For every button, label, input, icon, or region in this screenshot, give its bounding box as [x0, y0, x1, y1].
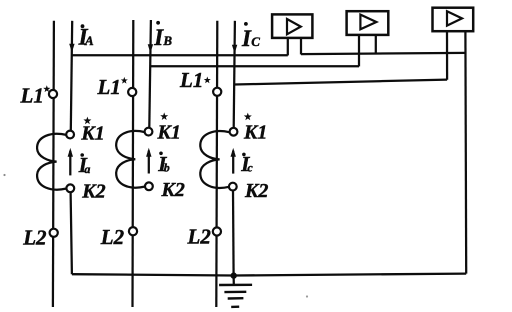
ammeter PA3 triangle symbol	[447, 11, 462, 25]
svg-text:L1: L1	[179, 68, 203, 92]
svg-text:L2: L2	[100, 225, 125, 249]
terminal K2 of TA1	[66, 184, 74, 192]
phase B primary conductor	[131, 20, 134, 307]
ammeter PA2 triangle symbol	[360, 15, 376, 30]
label IB with dot	[153, 21, 172, 50]
terminal K2 of TA3	[229, 183, 237, 191]
junction dot at ground node	[231, 272, 237, 278]
wire: IA secondary lead down to K1 of TA1	[71, 21, 72, 131]
terminal K1 of TA2	[145, 128, 153, 136]
ammeter PA3 box	[433, 8, 474, 32]
polarity star L1-B	[121, 77, 128, 84]
svg-text:L1: L1	[97, 75, 121, 99]
current arrow Ic (up)	[231, 148, 236, 174]
wire w2: K1-B to ammeter PA2 left terminal	[150, 65, 359, 67]
wire: K2-A down to common bus	[71, 192, 72, 274]
terminal K1 of TA3	[230, 128, 238, 136]
ammeter PA3 left terminal stub	[446, 31, 448, 79]
polarity star K1-B	[160, 112, 168, 120]
coil: TA2 secondary winding	[116, 131, 145, 188]
svg-text:K1: K1	[243, 122, 267, 144]
ammeter PA2 left terminal stub	[358, 35, 360, 67]
svg-text:K2: K2	[161, 179, 185, 201]
ground symbol	[219, 276, 252, 307]
ammeter PA1 triangle symbol	[287, 19, 301, 34]
arrowhead IC (current arrow down)	[232, 45, 237, 54]
svg-text:K2: K2	[81, 181, 105, 203]
terminal K2 of TA2	[145, 182, 153, 190]
ammeter PA2 box	[347, 11, 389, 35]
svg-text:K1: K1	[157, 122, 181, 144]
svg-text:A: A	[84, 33, 94, 48]
svg-text:C: C	[251, 34, 260, 49]
current arrow Ib (up)	[146, 148, 151, 174]
label IC with dot	[241, 22, 260, 51]
wire: IB secondary lead down to K1 of TA2	[149, 20, 151, 128]
svg-text:L1: L1	[20, 84, 44, 108]
label Ib with dot	[157, 152, 170, 176]
arrowhead IA (current arrow down)	[69, 44, 74, 53]
wire w1: K1-A to ammeter PA1 left terminal	[72, 54, 288, 56]
polarity star K1-A	[83, 117, 91, 125]
label Ia with dot	[78, 153, 91, 177]
svg-text:b: b	[164, 161, 170, 175]
phase C primary conductor	[216, 21, 217, 307]
svg-text:L2: L2	[187, 224, 212, 248]
terminal L1 phase B	[128, 88, 136, 96]
ammeter PA1 box	[272, 14, 312, 38]
terminal L1 phase A	[49, 90, 57, 98]
speck noise dot bottom middle	[306, 295, 308, 297]
coil: TA1 secondary winding	[37, 134, 66, 190]
wire w3: K1-C to ammeter PA3 left terminal	[234, 80, 447, 85]
terminal L2 phase A	[50, 229, 58, 237]
current arrow Ia (up)	[68, 148, 73, 176]
terminal L1 phase C	[213, 88, 221, 96]
ammeter PA1 left terminal stub	[287, 38, 289, 56]
svg-text:K1: K1	[80, 122, 104, 144]
terminal K1 of TA1	[66, 131, 74, 139]
svg-text:c: c	[247, 161, 253, 175]
label Ic with dot	[240, 152, 253, 176]
wire: K2-C down to ground junction	[232, 190, 235, 275]
svg-text:a: a	[84, 162, 90, 176]
svg-text:L2: L2	[22, 225, 47, 249]
terminal L2 phase B	[129, 227, 137, 235]
label IA with dot	[78, 24, 94, 49]
wire: IC secondary lead down to K1 of TA3	[234, 21, 235, 128]
arrowhead IB (current arrow down)	[148, 44, 153, 53]
speck noise dot left margin	[3, 174, 5, 176]
terminal L2 phase C	[213, 227, 221, 235]
ammeter PA1 right terminal stub	[300, 38, 302, 55]
polarity star L1-A	[43, 85, 50, 92]
phase A primary conductor	[53, 21, 54, 307]
svg-text:K2: K2	[244, 180, 268, 202]
svg-text:B: B	[162, 33, 172, 48]
coil: TA3 secondary winding	[200, 131, 229, 188]
ammeter PA2 right terminal stub	[375, 35, 377, 54]
polarity star K1-C	[244, 113, 252, 121]
wire: common return linking right terminals of PA1 PA2 PA3	[301, 53, 466, 54]
ammeter PA3 right terminal wire down to common bus	[464, 31, 467, 273]
wire: common bottom bus K2A-K2B-K2C-ground-PA3	[72, 274, 466, 276]
polarity star L1-C	[204, 77, 211, 84]
